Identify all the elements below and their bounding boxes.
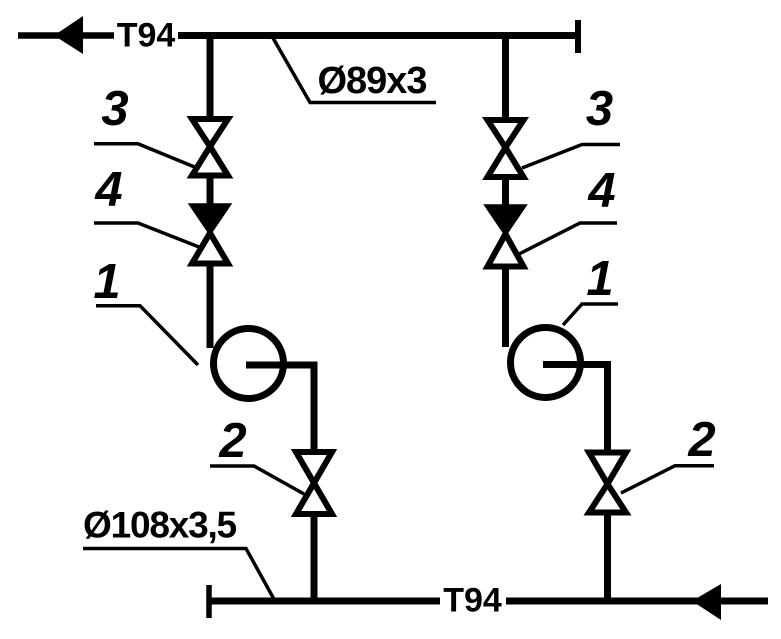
callout label 3 (right) with leader bbox=[522, 82, 620, 168]
svg-text:2: 2 bbox=[218, 414, 246, 468]
svg-text:4: 4 bbox=[587, 164, 615, 218]
callout label 1 (right) with leader bbox=[563, 252, 618, 325]
value label Ø108x3,5 with leader to bottom header bbox=[83, 505, 275, 602]
check valve 4 (right): open lower cone bbox=[488, 234, 524, 267]
callout label 2 (left) with leader bbox=[210, 414, 304, 494]
wire: bottom return header T94 left segment bbox=[209, 598, 440, 605]
check valve 4 (right): filled upper cone bbox=[487, 206, 525, 234]
wire: bottom return header T94 right segment bbox=[506, 598, 768, 605]
wire: right discharge drop to valve 2 bbox=[604, 365, 611, 453]
wire: right branch to bottom header bbox=[604, 514, 611, 601]
callout label 2 (right) with leader bbox=[621, 413, 716, 493]
callout label 4 (right) with leader bbox=[519, 164, 617, 254]
check valve 4 (left): filled upper cone bbox=[191, 205, 229, 233]
svg-text:2: 2 bbox=[687, 413, 715, 467]
valve 3 (right gate valve) bbox=[488, 120, 524, 177]
svg-text:1: 1 bbox=[586, 252, 613, 306]
valve 3 (left gate valve) bbox=[192, 119, 228, 176]
svg-text:1: 1 bbox=[93, 255, 120, 309]
svg-text:T94: T94 bbox=[443, 582, 502, 620]
svg-text:Ø108x3,5: Ø108x3,5 bbox=[83, 505, 237, 546]
callout label 3 (left) with leader bbox=[94, 82, 197, 168]
svg-text:3: 3 bbox=[101, 82, 128, 136]
wire: right connector valve3-valve4 bbox=[502, 178, 509, 207]
svg-text:3: 3 bbox=[586, 82, 613, 136]
wire: left pump suction drop bbox=[207, 265, 214, 348]
wire: right branch drop from header to valve 3 bbox=[502, 36, 509, 121]
callout label 4 (left) with leader bbox=[94, 163, 199, 247]
pump 1 (right centrifugal pump) bbox=[511, 328, 581, 398]
value label Ø89x3 with leader to top header bbox=[273, 38, 436, 103]
flow arrow on top header (points left) bbox=[54, 16, 83, 54]
check valve 4 (left): open lower cone bbox=[192, 233, 228, 264]
svg-text:T94: T94 bbox=[117, 17, 176, 55]
valve 2 (left gate valve) bbox=[296, 452, 332, 514]
callout label 1 (left) with leader bbox=[93, 255, 198, 365]
end cap tick at left end of bottom header bbox=[206, 585, 212, 618]
end cap tick at right end of top header bbox=[575, 20, 581, 53]
wire: left pump discharge horizontal bbox=[246, 362, 318, 369]
svg-text:Ø89x3: Ø89x3 bbox=[317, 60, 426, 102]
wire: left connector valve3-valve4 bbox=[207, 177, 214, 206]
wire: top supply header T94 left segment bbox=[18, 32, 114, 39]
wire: right pump discharge horizontal bbox=[543, 361, 611, 368]
flow arrow on bottom header (points left) bbox=[692, 584, 721, 620]
wire: left branch drop from header to valve 3 bbox=[207, 36, 214, 120]
svg-text:4: 4 bbox=[94, 163, 122, 217]
wire: left discharge drop to valve 2 bbox=[311, 365, 318, 452]
wire: top supply header T94 right segment bbox=[178, 32, 578, 39]
wire: left branch to bottom header bbox=[311, 516, 318, 602]
valve 2 (right gate valve) bbox=[589, 453, 626, 513]
pump 1 (left centrifugal pump) bbox=[214, 329, 284, 399]
wire: right pump suction drop bbox=[502, 268, 509, 347]
